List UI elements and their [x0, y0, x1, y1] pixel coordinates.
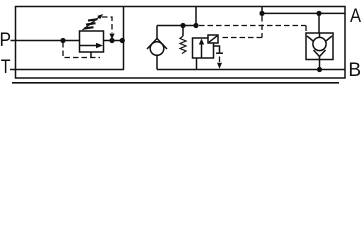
svg-text:P: P [0, 28, 11, 50]
svg-text:A: A [350, 5, 362, 27]
svg-text:T: T [1, 56, 11, 78]
svg-text:B: B [348, 60, 361, 81]
